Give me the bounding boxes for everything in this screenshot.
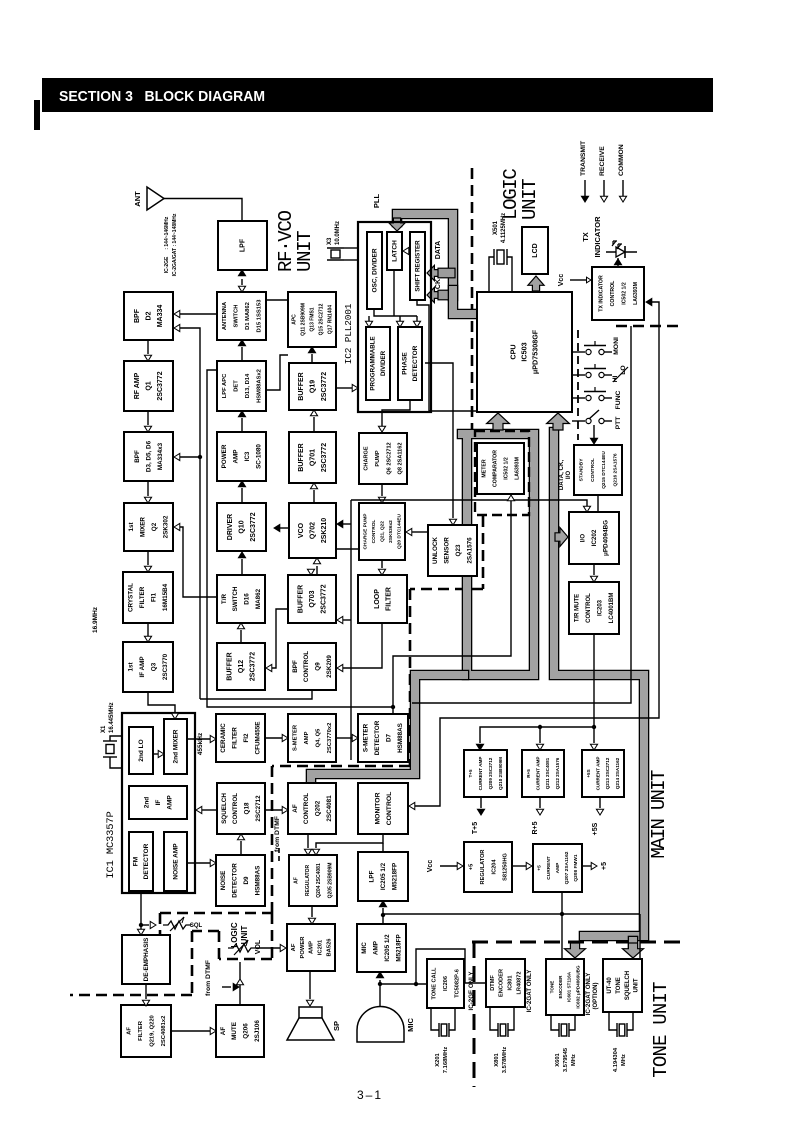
svg-text:UNIT: UNIT	[634, 978, 640, 992]
svg-text:M5218FP: M5218FP	[396, 934, 403, 961]
bus arrow into CPU bottom right	[547, 413, 570, 430]
bus ring meter/logic	[462, 434, 534, 675]
svg-text:SWITCH: SWITCH	[232, 586, 239, 611]
block OSC DIVIDER	[367, 232, 382, 309]
bus arrow CK into shift register	[427, 287, 439, 302]
block CPU IC503 uPD75308GF	[477, 292, 572, 412]
bus PLL latch/shift register	[397, 214, 453, 296]
wire latch to programmable divider	[393, 270, 395, 316]
block 2nd MIXER	[164, 719, 187, 774]
dashed boundary tone unit top	[472, 941, 687, 944]
bus CPU I/O to main/tone unit	[554, 432, 644, 936]
block PHASE DETECTOR	[398, 327, 422, 400]
svg-text:LC4001BM: LC4001BM	[609, 593, 615, 624]
svg-text:2SC3770: 2SC3770	[162, 653, 169, 680]
crystal X3 10.0MHz	[327, 247, 344, 249]
wire control line to VCO and buffer Q703	[350, 500, 352, 760]
svg-text:FM: FM	[133, 857, 140, 866]
wire +5S output	[599, 797, 601, 808]
svg-text:Vcc: Vcc	[558, 274, 565, 287]
svg-text:(OPTION): (OPTION)	[593, 983, 599, 1010]
svg-text:FI2: FI2	[243, 733, 250, 743]
svg-text:2SC3772: 2SC3772	[250, 652, 257, 681]
svg-text:4.194304: 4.194304	[613, 1047, 619, 1072]
wire 2nd mixer to ceramic filter 455kHz	[187, 738, 210, 740]
dashed boundary near switches	[577, 330, 579, 440]
svg-text:455kHz: 455kHz	[197, 732, 204, 755]
svg-text:AF: AF	[127, 1027, 133, 1035]
svg-text:BPF: BPF	[292, 660, 299, 673]
svg-text:AMP: AMP	[304, 731, 310, 744]
svg-text:COMMON: COMMON	[618, 144, 625, 176]
block SHIFT REGISTER	[410, 232, 425, 300]
svg-text:LPF APC: LPF APC	[222, 373, 228, 398]
antenna ANT	[147, 187, 164, 210]
svg-text:TX: TX	[581, 232, 590, 242]
svg-text:AF: AF	[294, 877, 300, 884]
svg-text:Q211 2SC4081: Q211 2SC4081	[545, 757, 550, 789]
svg-text:+5: +5	[601, 862, 608, 870]
svg-text:3–1: 3–1	[357, 1088, 383, 1102]
wire tone line to DTMF encoder	[416, 949, 486, 984]
svg-text:NOISE AMP: NOISE AMP	[172, 843, 179, 880]
dashed boundary logic unit controls	[160, 912, 272, 915]
wire AF control to AF regulator	[307, 834, 309, 848]
svg-text:DRIVER: DRIVER	[227, 514, 234, 540]
svg-text:DETECTOR: DETECTOR	[412, 345, 419, 381]
svg-text:SC-1080: SC-1080	[256, 444, 263, 469]
wire mic to mic amp	[379, 980, 381, 1007]
LED TX indicator	[606, 251, 637, 253]
wire buffer Q19 to programmable divider	[336, 387, 352, 389]
svg-text:LA6393M: LA6393M	[633, 282, 639, 305]
block TONE CALL IC206	[427, 959, 464, 1008]
svg-text:X1: X1	[101, 725, 107, 733]
svg-text:SQUELCH: SQUELCH	[221, 793, 228, 824]
svg-text:2SK210: 2SK210	[321, 518, 328, 543]
svg-text:2SC3772: 2SC3772	[321, 584, 328, 613]
svg-text:Q701: Q701	[310, 449, 317, 466]
wire RF AMP to BPF D3	[147, 411, 149, 425]
svg-text:IC204: IC204	[491, 859, 497, 875]
wire Vcc to TX indicator control	[570, 279, 586, 281]
svg-text:UNIT: UNIT	[294, 231, 316, 272]
wire charge pump control to loop filter	[381, 560, 383, 568]
bus meter line to AF control	[311, 675, 464, 780]
block APC Q11 Q13 Q15 Q17	[288, 292, 336, 347]
svg-text:TONE: TONE	[549, 981, 554, 994]
svg-text:R+5: R+5	[532, 821, 539, 834]
svg-text:UNIT: UNIT	[240, 926, 249, 945]
svg-text:Q205 2SB909M: Q205 2SB909M	[328, 863, 334, 899]
wire T/R switch to driver	[241, 559, 243, 575]
bus arrow CPU to LCD	[528, 276, 544, 291]
svg-text:Q2: Q2	[151, 522, 158, 531]
svg-text:ENCODER: ENCODER	[558, 975, 563, 999]
block DRIVER Q10 2SC3772	[217, 503, 266, 551]
crystal X201 7.168MHz	[431, 1008, 439, 1030]
svg-text:D7: D7	[386, 733, 393, 742]
wire to monitor control	[409, 802, 415, 809]
wire 2nd IF amp to squelch control	[201, 809, 217, 811]
scan artifact left of header	[34, 100, 40, 130]
svg-text:BA526: BA526	[327, 938, 333, 957]
wire charge pump to charge pump control	[381, 484, 383, 496]
microphone MIC	[357, 1007, 404, 1042]
svg-text:LPF: LPF	[368, 870, 375, 882]
svg-text:CONTROL: CONTROL	[586, 593, 592, 623]
wire BPF D3 to 1st mixer	[147, 481, 149, 496]
svg-text:LR40872: LR40872	[517, 971, 523, 994]
svg-text:X601: X601	[555, 1052, 561, 1066]
svg-text:BPF: BPF	[134, 450, 141, 463]
bus PLL to CPU	[453, 290, 477, 314]
svg-text:DATA, CK,: DATA, CK,	[558, 460, 565, 491]
svg-text:MIXER: MIXER	[140, 517, 147, 537]
svg-text:OSC, DIVIDER: OSC, DIVIDER	[371, 248, 378, 292]
wire standby control down	[597, 495, 599, 512]
svg-text:APC: APC	[292, 314, 298, 325]
bus arrow into tone encoder	[565, 943, 586, 958]
svg-text:DET: DET	[234, 380, 240, 392]
svg-text:UNIT: UNIT	[519, 179, 541, 220]
svg-text:3.578MHz: 3.578MHz	[502, 1047, 508, 1074]
dashed stub at SQL box	[159, 913, 162, 934]
svg-text:IC3: IC3	[244, 451, 251, 461]
block CHARGE PUMP Q6 Q8	[359, 433, 407, 484]
wire I/O to T/R mute control	[593, 564, 595, 575]
header bar SECTION 3 BLOCK DIAGRAM	[42, 78, 713, 112]
svg-text:MHz: MHz	[621, 1054, 627, 1066]
wire 1st IF amp to 2nd mixer	[148, 692, 175, 712]
svg-text:Q215 DTC144EU: Q215 DTC144EU	[601, 451, 607, 489]
svg-text:CONTROL: CONTROL	[386, 792, 393, 826]
svg-text:AMP: AMP	[555, 862, 561, 873]
svg-text:Q11 2SB909M: Q11 2SB909M	[301, 303, 307, 336]
svg-text:DTMF: DTMF	[490, 975, 496, 991]
dashed box meter comparator	[475, 431, 529, 515]
block 1st IF AMP Q3 2SC3770	[123, 642, 173, 692]
svg-text:Q210 2SB909M: Q210 2SB909M	[498, 757, 503, 790]
block 2nd LO	[129, 727, 153, 774]
svg-text:UT-40: UT-40	[607, 977, 613, 994]
svg-text:T+5: T+5	[468, 769, 473, 777]
svg-text:Q21, Q22: Q21, Q22	[379, 521, 385, 542]
svg-text:CONTROL: CONTROL	[303, 793, 310, 824]
wire unlock sensor to charge pump control	[412, 531, 428, 533]
block ANTENNA SWITCH D1 D15	[217, 292, 266, 340]
wire LED to TX indicator control	[617, 258, 619, 267]
svg-text:MA862: MA862	[255, 588, 262, 609]
wire BPF D2 to RF AMP	[147, 340, 149, 354]
svg-text:CONTROL: CONTROL	[303, 651, 310, 682]
wire BPF control line to BPF D2	[180, 328, 200, 699]
svg-text:MIC: MIC	[406, 1018, 415, 1032]
svg-text:Q20 DTC144EU: Q20 DTC144EU	[397, 514, 403, 549]
svg-text:Q23: Q23	[455, 544, 462, 556]
svg-text:2SJ106: 2SJ106	[254, 1020, 261, 1042]
wire to +5S current amp	[593, 727, 595, 743]
svg-text:PLL: PLL	[372, 194, 381, 209]
svg-text:TC5082P-6: TC5082P-6	[455, 969, 461, 998]
svg-text:MIC: MIC	[361, 942, 368, 954]
svg-text:HSM88AS: HSM88AS	[255, 866, 262, 896]
svg-text:AF: AF	[291, 943, 297, 951]
svg-text:MA334x3: MA334x3	[157, 442, 164, 470]
wire meter comparator to S-meter detector	[393, 501, 511, 713]
block FM DETECTOR	[129, 832, 153, 891]
dashed boundary main unit left upper	[409, 589, 412, 766]
svg-text:REGULATOR: REGULATOR	[480, 850, 486, 885]
svg-text:SQL: SQL	[190, 923, 203, 929]
svg-text:S-METER: S-METER	[363, 723, 370, 752]
svg-text:X801: X801	[494, 1052, 500, 1066]
block S-METER DETECTOR D7 HSM88AS	[358, 714, 408, 762]
block T/R MUTE CONTROL IC203	[569, 582, 619, 634]
svg-text:T/R: T/R	[221, 593, 228, 604]
svg-text:IC205 1/2: IC205 1/2	[384, 934, 391, 962]
svg-text:Q12: Q12	[238, 660, 245, 673]
svg-text:SENSOR: SENSOR	[444, 537, 451, 564]
wire monitor control to AF regulator line	[316, 834, 383, 848]
block LOOP FILTER	[358, 575, 407, 623]
svg-text:IC502 1/2: IC502 1/2	[621, 282, 627, 305]
svg-text:2SK302: 2SK302	[163, 515, 170, 538]
block METER COMPARATOR IC502	[477, 443, 524, 494]
svg-text:BUFFER: BUFFER	[298, 585, 305, 613]
wire loop filter to BPF control	[343, 623, 382, 668]
svg-text:Q15 2SC2712: Q15 2SC2712	[318, 303, 324, 335]
svg-text:2SC4081x2: 2SC4081x2	[161, 1016, 167, 1047]
block SQUELCH CONTROL Q18 2SC2712	[217, 783, 265, 834]
svg-text:IF: IF	[155, 800, 162, 806]
svg-text:METER: METER	[481, 459, 487, 477]
svg-text:LATCH: LATCH	[391, 240, 398, 262]
svg-text:2SC2712: 2SC2712	[255, 795, 262, 822]
wire T/R switch to 1st mixer	[180, 527, 217, 597]
svg-text:PROGRAMMABLE: PROGRAMMABLE	[370, 336, 377, 390]
wire shift register to CPU	[417, 300, 477, 411]
block AF MUTE Q206 2SJ106	[216, 1005, 264, 1057]
svg-text:MONITOR: MONITOR	[374, 792, 381, 824]
svg-text:CONTROL: CONTROL	[371, 520, 377, 544]
svg-text:BUFFER: BUFFER	[298, 372, 305, 400]
svg-text:Q18: Q18	[244, 802, 251, 814]
svg-text:MAIN UNIT: MAIN UNIT	[648, 770, 670, 859]
wire from DTMF to AF mute	[222, 986, 231, 988]
svg-text:RF AMP: RF AMP	[134, 372, 141, 399]
block BUFFER Q19 2SC3772	[289, 363, 336, 410]
svg-text:μPD4094BG: μPD4094BG	[602, 520, 609, 556]
wire antenna switch to BPF D2	[180, 313, 217, 315]
svg-text:IC202: IC202	[591, 529, 598, 546]
svg-text:SP: SP	[332, 1021, 341, 1031]
bus arrow into I/O IC202	[555, 528, 568, 547]
wire T+5 output	[480, 797, 482, 808]
wire into buffer Q703	[307, 569, 314, 575]
svg-text:X3: X3	[327, 237, 333, 245]
svg-text:1st: 1st	[128, 662, 135, 672]
wire osc divider to dividers	[374, 309, 417, 316]
svg-text:2nd: 2nd	[143, 797, 150, 809]
svg-text:POWER: POWER	[221, 444, 228, 468]
wire AF regulator to AF power amp	[311, 906, 313, 917]
wire de-emphasis to AF filter	[145, 984, 147, 999]
svg-text:CONTROL: CONTROL	[590, 458, 596, 482]
svg-text:Q9: Q9	[315, 662, 322, 671]
wire PTT to standby control	[593, 425, 595, 438]
block TX INDICATOR CONTROL IC502	[592, 267, 644, 320]
svg-text:SHIFT REGISTER: SHIFT REGISTER	[414, 240, 421, 292]
svg-text:Q207 2SA1162: Q207 2SA1162	[564, 851, 570, 884]
svg-text:IC503: IC503	[520, 342, 529, 361]
wire AF filter to AF mute	[171, 1030, 210, 1032]
wire R+5 output	[539, 797, 541, 808]
wire phase detector to charge pump	[382, 400, 410, 426]
svg-text:ANT: ANT	[133, 191, 142, 207]
wire +5 current amp down to tone line	[561, 892, 563, 914]
wire ceramic filter to S-meter amp	[265, 737, 282, 739]
svg-text:Q3: Q3	[151, 662, 158, 671]
svg-text:LOGIC: LOGIC	[230, 922, 239, 948]
svg-text:BUFFER: BUFFER	[298, 443, 305, 471]
svg-text:Q214 2SA1162: Q214 2SA1162	[615, 757, 620, 789]
wire 2nd LO to 2nd mixer	[153, 753, 158, 755]
svg-text:MHz: MHz	[571, 1054, 577, 1066]
svg-text:PUMP: PUMP	[375, 450, 381, 466]
svg-text:CHARGE: CHARGE	[364, 446, 370, 471]
svg-text:D2: D2	[146, 311, 153, 320]
svg-text:S-METER: S-METER	[293, 724, 299, 751]
dashed boundary below meter comparator	[482, 516, 485, 589]
svg-text:Q703: Q703	[309, 590, 316, 607]
svg-text:FILTER: FILTER	[138, 1020, 144, 1041]
dashed boundary main unit left lower	[271, 766, 274, 913]
svg-text:AF: AF	[292, 804, 299, 813]
svg-text:DE-EMPHASIS: DE-EMPHASIS	[143, 938, 150, 982]
svg-text:R+5: R+5	[526, 769, 531, 778]
svg-text:+5: +5	[469, 864, 475, 870]
svg-text:D16: D16	[244, 593, 251, 605]
svg-text:Q212 2SA1576: Q212 2SA1576	[555, 757, 560, 789]
wire AF power amp to speaker	[309, 971, 311, 999]
svg-text:POWER: POWER	[300, 936, 306, 959]
svg-text:SECTION 3 BLOCK DIAGRAM: SECTION 3 BLOCK DIAGRAM	[59, 88, 265, 105]
svg-text:from DTMF: from DTMF	[205, 960, 212, 996]
svg-text:SWITCH: SWITCH	[234, 305, 240, 328]
potentiometer SQL	[163, 921, 191, 929]
svg-text:PHASE: PHASE	[402, 352, 409, 375]
wire mic junction to tone call	[380, 983, 427, 985]
svg-text:Q216 2SA1576: Q216 2SA1576	[613, 453, 619, 486]
svg-text:IC602 μPD4069UBG: IC602 μPD4069UBG	[575, 965, 580, 1009]
block CRYSTAL FILTER FI1 16M15B4	[123, 572, 173, 623]
svg-text:LCD: LCD	[532, 243, 539, 257]
svg-text:CFUM455E: CFUM455E	[255, 722, 262, 755]
wire +5 regulator to +5 current amp	[512, 865, 527, 867]
wire tone line to UT-40	[639, 914, 641, 959]
svg-text:D3, D5, D6: D3, D5, D6	[145, 440, 152, 472]
svg-text:LA6393M: LA6393M	[515, 457, 521, 480]
svg-text:CURRENT AMP: CURRENT AMP	[478, 757, 483, 791]
wire junction to BPF D3	[180, 456, 200, 458]
svg-text:CONTROL: CONTROL	[610, 280, 616, 306]
block T/R SWITCH D16 MA862	[217, 575, 265, 623]
svg-text:IC-2GE ONLY: IC-2GE ONLY	[468, 971, 475, 1011]
block LPF antenna	[218, 221, 267, 270]
svg-text:COMPARATOR: COMPARATOR	[493, 450, 499, 487]
svg-text:10.0MHz: 10.0MHz	[335, 221, 341, 245]
svg-text:DIVIDER: DIVIDER	[380, 350, 387, 376]
svg-text:Vcc: Vcc	[427, 860, 434, 873]
block +5S CURRENT AMP Q213 Q214	[582, 750, 624, 797]
svg-text:ENCODER: ENCODER	[499, 969, 505, 997]
block +5 CURRENT AMP Q207 Q208	[533, 844, 582, 892]
svg-text:Q208 FMW1: Q208 FMW1	[573, 854, 579, 882]
svg-text:IC205 1/2: IC205 1/2	[380, 862, 387, 890]
crystal X801 3.578MHz	[490, 1007, 498, 1030]
svg-text:IC601 ST116A: IC601 ST116A	[567, 971, 572, 1002]
block I/O IC202 uPD4094BG	[569, 512, 619, 564]
svg-text:PTT: PTT	[615, 416, 622, 430]
wire to R+5 current amp	[539, 727, 541, 743]
svg-text:MONI: MONI	[613, 337, 620, 355]
wire shift register to latch	[408, 250, 410, 252]
svg-text:AMP: AMP	[373, 941, 380, 955]
svg-text:FUNC: FUNC	[615, 390, 622, 409]
svg-text:CK: CK	[435, 279, 442, 289]
switch HI/LO	[572, 374, 585, 376]
svg-text:X501: X501	[493, 220, 499, 235]
svg-text:+5: +5	[537, 865, 543, 871]
svg-text:SQUELCH: SQUELCH	[625, 971, 631, 1000]
wire BPF control down to band line	[200, 690, 312, 699]
wire buffer Q703 to buffer Q12	[272, 609, 288, 668]
svg-text:DETECTOR: DETECTOR	[143, 843, 150, 879]
svg-text:IC206: IC206	[443, 976, 449, 991]
svg-text:IC-2GA/GAT : 144~148MHz: IC-2GA/GAT : 144~148MHz	[172, 213, 178, 276]
wire VCO to charge pump control	[336, 548, 359, 550]
block R+5 CURRENT AMP Q211 Q212	[522, 750, 564, 797]
svg-text:Q6 2SC2712: Q6 2SC2712	[386, 442, 392, 474]
switch PTT	[572, 420, 585, 422]
wire S-meter amp to S-meter detector	[336, 737, 352, 739]
wire LPF APC det to APC	[266, 355, 288, 390]
block LPF IC205	[358, 852, 408, 901]
svg-text:Q10: Q10	[239, 520, 246, 533]
svg-text:BPF: BPF	[134, 308, 141, 323]
block POWER AMP IC3 SC-1080	[217, 432, 266, 481]
bus arrow DATA into shift register	[427, 265, 439, 280]
svg-text:2SC3772: 2SC3772	[321, 372, 328, 401]
block CERAMIC FILTER FI2 CFUM455E	[216, 714, 265, 762]
block AF FILTER Q219 Q220 2SC4081x2	[121, 1005, 171, 1057]
wire +5 current amp output	[582, 865, 592, 867]
wire LPF IC205 up	[382, 843, 384, 852]
block DE-EMPHASIS	[122, 935, 170, 984]
svg-text:I/O: I/O	[579, 534, 586, 542]
svg-text:CERAMIC: CERAMIC	[220, 723, 227, 753]
dashed boundary bottom left	[70, 994, 192, 997]
svg-text:μPD75308GF: μPD75308GF	[531, 329, 540, 374]
block AF REGULATOR Q204 Q205	[289, 855, 337, 906]
svg-text:REGULATOR: REGULATOR	[305, 865, 311, 897]
crystal X501 4.1125MHz	[489, 257, 494, 292]
arrow RECEIVE	[603, 180, 605, 196]
svg-text:UNLOCK: UNLOCK	[432, 537, 439, 564]
block IC1 MC3357P outline	[122, 713, 195, 893]
svg-text:2SK536x2: 2SK536x2	[388, 520, 394, 543]
